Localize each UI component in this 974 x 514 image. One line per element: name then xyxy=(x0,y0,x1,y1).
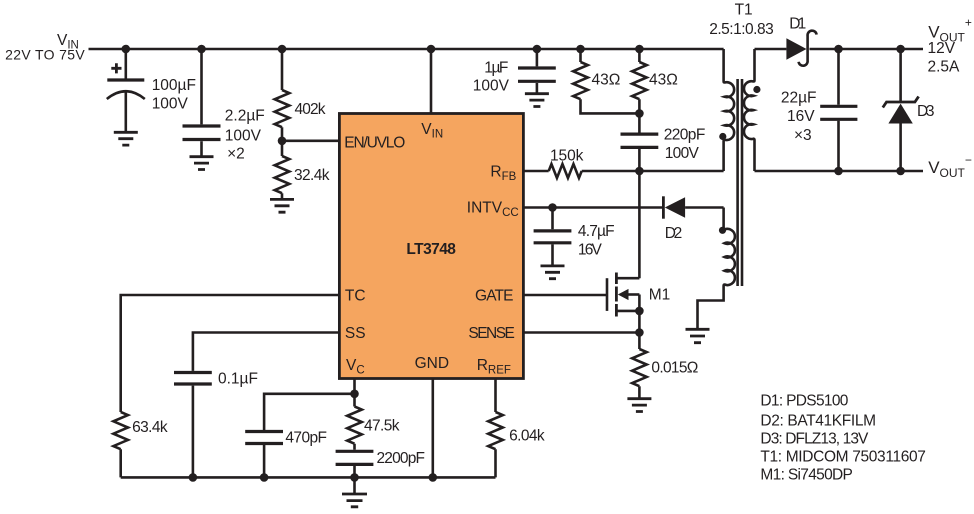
svg-text:100µF: 100µF xyxy=(152,77,196,94)
svg-text:×3: ×3 xyxy=(794,127,812,144)
svg-text:2200pF: 2200pF xyxy=(377,450,426,467)
svg-text:2.2µF: 2.2µF xyxy=(225,108,265,125)
svg-text:100V: 100V xyxy=(665,145,700,162)
svg-text:63.4k: 63.4k xyxy=(132,419,168,436)
svg-text:402k: 402k xyxy=(295,101,326,118)
svg-text:4.7µF: 4.7µF xyxy=(578,223,615,240)
svg-text:VOUT−: VOUT− xyxy=(928,153,972,180)
svg-text:GND: GND xyxy=(415,355,449,372)
svg-text:43Ω: 43Ω xyxy=(592,72,621,89)
svg-text:0.015Ω: 0.015Ω xyxy=(651,360,698,377)
svg-text:100V: 100V xyxy=(473,78,510,95)
svg-text:6.04k: 6.04k xyxy=(509,428,545,445)
svg-text:2.5A: 2.5A xyxy=(928,59,961,76)
svg-text:D3: D3 xyxy=(917,103,935,120)
svg-text:470pF: 470pF xyxy=(285,430,327,447)
svg-text:D1: D1 xyxy=(789,15,806,32)
svg-text:100V: 100V xyxy=(152,96,189,113)
svg-text:22µF: 22µF xyxy=(781,89,817,106)
svg-text:×2: ×2 xyxy=(227,146,245,163)
svg-text:150k: 150k xyxy=(550,148,584,165)
svg-text:22V TO 75V: 22V TO 75V xyxy=(5,47,85,63)
svg-text:16V: 16V xyxy=(787,108,815,125)
svg-text:SENSE: SENSE xyxy=(468,325,515,342)
svg-text:1µF: 1µF xyxy=(484,60,508,77)
svg-text:0.1µF: 0.1µF xyxy=(218,371,258,388)
svg-text:47.5k: 47.5k xyxy=(364,418,400,435)
svg-text:D2: D2 xyxy=(665,225,683,242)
svg-text:2.5:1:0.83: 2.5:1:0.83 xyxy=(709,21,774,38)
svg-text:D1: PDS5100: D1: PDS5100 xyxy=(760,393,848,410)
svg-text:T1: T1 xyxy=(735,1,753,18)
svg-text:GATE: GATE xyxy=(475,288,514,305)
svg-text:SS: SS xyxy=(345,325,366,342)
svg-text:EN/UVLO: EN/UVLO xyxy=(344,135,405,152)
svg-text:T1: MIDCOM 750311607: T1: MIDCOM 750311607 xyxy=(760,449,926,466)
svg-text:LT3748: LT3748 xyxy=(406,241,456,258)
svg-text:100V: 100V xyxy=(225,127,262,144)
svg-text:M1: Si7450DP: M1: Si7450DP xyxy=(760,467,853,484)
svg-text:TC: TC xyxy=(345,288,366,305)
svg-text:220pF: 220pF xyxy=(664,127,706,144)
svg-text:16V: 16V xyxy=(578,242,603,259)
svg-text:12V: 12V xyxy=(928,40,956,57)
svg-text:D2: BAT41KFILM: D2: BAT41KFILM xyxy=(760,412,876,429)
svg-text:D3: DFLZ13, 13V: D3: DFLZ13, 13V xyxy=(760,431,869,448)
svg-text:M1: M1 xyxy=(649,287,671,304)
svg-text:32.4k: 32.4k xyxy=(294,167,330,184)
svg-text:43Ω: 43Ω xyxy=(649,72,678,89)
